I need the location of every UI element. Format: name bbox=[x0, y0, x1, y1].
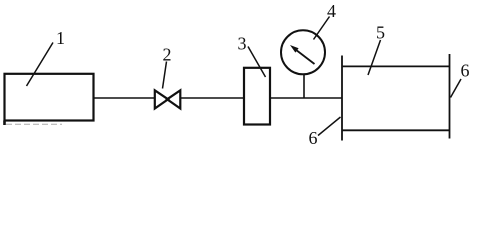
gauge stem wire bbox=[303, 74, 305, 99]
valve 2 (bowtie) bbox=[155, 90, 181, 108]
wire from valve 2 to regulator 3 bbox=[180, 97, 244, 99]
leader line to 3 bbox=[248, 47, 266, 78]
tank 1 (left box) bbox=[5, 74, 94, 125]
leader line to 1 bbox=[27, 43, 54, 87]
regulator 3 (small vertical box) bbox=[244, 68, 270, 125]
leader line to 5 bbox=[368, 40, 381, 75]
svg-text:1: 1 bbox=[56, 28, 65, 48]
wire from tank 1 to valve 2 bbox=[94, 97, 156, 99]
wire from regulator 3 to chamber 5 bbox=[270, 97, 342, 99]
leader line to bottom 6 bbox=[318, 117, 341, 136]
pressure gauge 4 bbox=[281, 30, 325, 74]
leader line to 4 bbox=[314, 17, 330, 40]
svg-text:6: 6 bbox=[309, 128, 318, 148]
svg-text:3: 3 bbox=[238, 34, 247, 54]
svg-text:5: 5 bbox=[376, 23, 385, 43]
chamber 5 (right box with end plates) bbox=[342, 54, 450, 141]
leader line to right 6 bbox=[451, 79, 462, 98]
leader line to 2 bbox=[163, 62, 167, 89]
svg-text:6: 6 bbox=[461, 61, 470, 81]
